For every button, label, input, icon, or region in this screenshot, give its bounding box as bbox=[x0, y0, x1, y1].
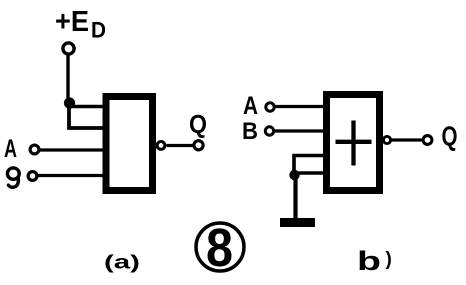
terminal Q (a) bbox=[194, 141, 203, 150]
inverter bubble (a) bbox=[157, 142, 165, 150]
wire rung bottom b bbox=[294, 171, 326, 175]
terminal +ED bbox=[63, 43, 74, 54]
wire A (a) bbox=[40, 148, 104, 151]
wire B (b) bbox=[275, 129, 326, 132]
terminal A (a) bbox=[30, 145, 39, 154]
figure number circle bbox=[196, 223, 244, 271]
svg-text:Q: Q bbox=[442, 121, 458, 152]
buffer block U1 (a) bbox=[106, 97, 153, 191]
wire A (b) bbox=[275, 105, 326, 108]
svg-text:8: 8 bbox=[206, 218, 233, 278]
inverter bubble (b) bbox=[383, 136, 390, 143]
junction dot b bbox=[289, 170, 299, 180]
label B (a) bbox=[7, 168, 19, 187]
svg-text:B: B bbox=[242, 118, 258, 145]
wire Q (b) bbox=[391, 138, 422, 141]
svg-text:b: b bbox=[357, 246, 381, 276]
svg-text:Q: Q bbox=[189, 109, 207, 139]
terminal B (a) bbox=[28, 172, 37, 181]
svg-text:A: A bbox=[243, 92, 258, 120]
junction dot a bbox=[64, 97, 75, 108]
wire rung top b bbox=[294, 156, 323, 175]
wire B (a) bbox=[38, 174, 104, 177]
summing block U2 (b) bbox=[327, 95, 380, 191]
wire supply vertical bbox=[66, 54, 69, 101]
svg-text:A: A bbox=[4, 135, 17, 163]
terminal Q (b) bbox=[423, 136, 432, 145]
terminal B (b) bbox=[265, 127, 273, 135]
svg-text:D: D bbox=[91, 18, 106, 43]
plus sign inside U2 bbox=[336, 121, 372, 166]
terminal A (b) bbox=[266, 103, 274, 111]
svg-text:(a): (a) bbox=[104, 253, 140, 274]
label +ED (supply) bbox=[55, 6, 106, 43]
wire to ground bbox=[293, 175, 297, 218]
svg-text:): ) bbox=[386, 249, 392, 270]
wire Q (a) bbox=[167, 144, 194, 147]
wire rung top a bbox=[69, 105, 105, 109]
ground symbol bbox=[280, 218, 315, 227]
svg-text:+E: +E bbox=[55, 6, 89, 38]
wire rung bottom a bbox=[69, 103, 108, 128]
